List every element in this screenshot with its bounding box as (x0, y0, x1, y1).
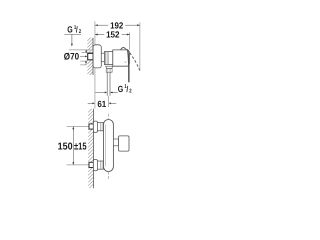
shaft (101, 53, 104, 62)
svg-text:G: G (118, 84, 123, 94)
leader shelf (69, 49, 91, 51)
sleeve nut (104, 52, 112, 65)
upper union stub (97, 123, 103, 131)
lower escutcheon (93, 160, 97, 171)
G1/2 underline (64, 34, 81, 36)
svg-text:G: G (67, 25, 72, 35)
lower arrow shelf (80, 64, 86, 66)
body cap (113, 50, 130, 66)
pipe centre extension (108, 96, 110, 107)
wall face line (side view) (92, 38, 94, 75)
svg-text:61: 61 (97, 99, 106, 109)
svg-text:Ø70: Ø70 (64, 52, 79, 63)
cap inner tick (124, 61, 126, 63)
upper union extension line (67, 126, 90, 128)
outlet knurled nut (106, 69, 112, 73)
dimension 152 (129, 32, 131, 49)
svg-text:152: 152 (106, 30, 119, 40)
lever open position (dashed) (127, 49, 140, 70)
handle stem (front) (113, 139, 118, 146)
dimension 150 +/-15 (72, 127, 74, 165)
upper escutcheon (93, 121, 97, 132)
G1/2 label (top-left) (67, 25, 81, 36)
supply pipe extension lines behind wall (82, 52, 93, 54)
dimension 61 (88, 102, 93, 104)
lever nub (solid) (120, 47, 127, 50)
wall hatch (front view) (88, 109, 93, 188)
G1/2 label (outlet) (118, 84, 132, 95)
diameter 70 leader (80, 55, 85, 57)
svg-text:2: 2 (129, 88, 131, 94)
G1/2 nut arrow (down) (85, 50, 87, 51)
lower union extension line (67, 164, 90, 166)
wall hatch (side view) (87, 38, 93, 75)
lower union stub (97, 161, 103, 169)
G1/2 leader arrow down (71, 35, 73, 44)
outlet cone (106, 66, 113, 68)
svg-text:±15: ±15 (74, 141, 87, 152)
diameter 70 label (64, 52, 79, 63)
centreline below body (107, 172, 109, 180)
lever blade hanging down (128, 50, 129, 82)
outlet pipe (106, 72, 108, 96)
supply union nut (88, 53, 93, 59)
escutcheon flange (93, 45, 101, 68)
upper union nut (89, 124, 93, 129)
handle knob (front) (119, 136, 130, 151)
G1/2 nut arrow (up) (85, 63, 87, 65)
svg-text:150: 150 (58, 141, 73, 152)
body capsule (104, 120, 114, 172)
svg-text:2: 2 (79, 29, 81, 35)
lower union nut (89, 162, 93, 167)
dimension 192 (94, 21, 96, 44)
wall face line (front view) (92, 109, 94, 188)
centreline above body (107, 114, 109, 120)
G1/2 pipe arrows (95, 91, 104, 93)
